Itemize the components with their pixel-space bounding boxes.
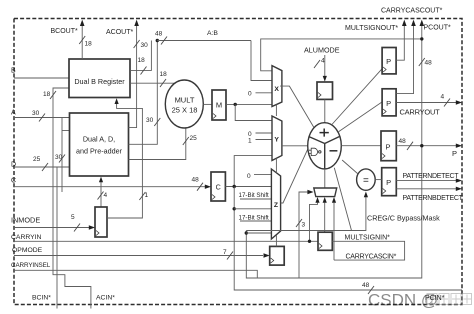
wire P2 to CARRYCASCOUT	[396, 25, 413, 94]
svg-text:3: 3	[302, 222, 306, 229]
arrowhead BCOUT crossing border	[80, 20, 85, 26]
svg-text:OPMODE: OPMODE	[12, 247, 43, 254]
arrowhead carry candidate 3	[332, 197, 336, 203]
svg-text:17-Bit Shift: 17-Bit Shift	[239, 192, 270, 199]
wire INMODE register to pre-adder	[100, 182, 102, 208]
svg-text:and Pre-adder: and Pre-adder	[76, 147, 123, 156]
svg-text:48: 48	[192, 176, 200, 183]
svg-text:C: C	[11, 178, 16, 185]
svg-text:25: 25	[190, 135, 198, 142]
value 4 on INMODE-to-preadder	[98, 192, 108, 200]
wire C into Y mux	[234, 156, 272, 187]
wire P3 output to border	[396, 145, 456, 147]
svg-text:X: X	[274, 86, 279, 93]
svg-text:CARRYINSEL: CARRYINSEL	[11, 262, 51, 269]
mux carry-in select trapezoid	[314, 188, 337, 197]
op-amp ALU add/sub/logic unit	[308, 123, 342, 169]
value 4 on ALUMODE	[314, 57, 325, 68]
svg-text:Dual B Register: Dual B Register	[74, 77, 125, 86]
svg-text:4: 4	[321, 57, 325, 64]
svg-text:M: M	[216, 100, 222, 109]
value 48 on C input	[192, 176, 204, 190]
wire INMODE input	[14, 227, 89, 229]
register P3	[381, 131, 396, 161]
node M output junction	[234, 103, 237, 106]
svg-text:0: 0	[247, 173, 251, 180]
svg-text:PCOUT*: PCOUT*	[424, 24, 452, 31]
svg-text:PATTERNDETECT: PATTERNDETECT	[403, 173, 460, 180]
svg-text:ALUMODE: ALUMODE	[304, 46, 340, 55]
svg-text:MULT: MULT	[175, 96, 195, 105]
value 48 on PCOUT	[419, 58, 432, 66]
wire comparator to P register 4	[375, 179, 382, 181]
svg-text:4: 4	[441, 93, 445, 100]
svg-text:INMODE: INMODE	[11, 216, 40, 225]
svg-text:CARRYCASCOUT*: CARRYCASCOUT*	[381, 7, 443, 14]
svg-text:CARRYCASCIN*: CARRYCASCIN*	[346, 253, 397, 260]
value 18 on BCOUT	[79, 36, 92, 47]
wire D input	[14, 166, 70, 168]
svg-text:1: 1	[248, 138, 252, 145]
wire PATTERNBDETECT to border	[396, 188, 456, 190]
svg-text:0: 0	[248, 91, 252, 98]
wire CARRYCASCIN to carry mux	[333, 203, 335, 261]
wire pre-adder output to multiplier	[129, 128, 186, 160]
wire mux select X to Y	[275, 105, 277, 117]
arrowhead INMODE into register	[89, 225, 95, 229]
svg-text:P: P	[386, 99, 391, 108]
svg-text:Z: Z	[274, 202, 278, 209]
register ALUMODE	[317, 82, 333, 99]
register P2	[382, 89, 396, 116]
wire ALUMODE into register	[324, 55, 326, 76]
svg-text:=: =	[363, 175, 369, 186]
svg-text:MULTSIGNOUT*: MULTSIGNOUT*	[345, 25, 398, 32]
wire 17-bit shifted input upper into Z mux	[240, 198, 271, 200]
node P feedback junction at Z	[245, 231, 248, 234]
svg-text:7: 7	[223, 249, 227, 256]
value 30 on A input	[32, 110, 45, 122]
svg-text:48: 48	[425, 59, 433, 66]
value 3 on CARRYINSEL riser	[296, 219, 306, 229]
wire P feedback into Z mux	[246, 232, 271, 234]
svg-text:P: P	[386, 178, 391, 187]
svg-text:18: 18	[85, 40, 93, 47]
wire CARRYIN branch to carry mux	[310, 203, 318, 242]
wire BCIN vertical	[56, 167, 58, 309]
svg-text:BCIN*: BCIN*	[32, 295, 51, 302]
node CARRYIN junction	[308, 240, 311, 243]
svg-text:A: A	[11, 110, 16, 117]
wire P feedback to X mux	[261, 39, 422, 71]
svg-text:ACIN*: ACIN*	[96, 295, 115, 302]
arrowhead carry candidate 1	[315, 197, 319, 203]
wire 17-bit shifted input lower into Z mux	[240, 220, 271, 222]
wire PCOUT riser	[421, 25, 423, 146]
svg-text:25: 25	[33, 156, 41, 163]
register INMODE	[95, 207, 107, 237]
register carry-in	[318, 232, 332, 250]
svg-text:ACOUT*: ACOUT*	[106, 29, 134, 36]
svg-text:30: 30	[32, 110, 40, 117]
wire M output to X mux	[226, 103, 272, 105]
wire B input	[14, 77, 69, 79]
wire ALU to pattern comparator	[342, 160, 357, 174]
wire CREG bypass into comparator	[246, 197, 366, 231]
svg-text:CARRYIN: CARRYIN	[11, 234, 42, 241]
value 4 on CARRYOUT	[441, 93, 451, 106]
wire Z mux output to ALU	[281, 149, 308, 203]
svg-text:48: 48	[155, 30, 163, 37]
wire X mux output to ALU	[280, 86, 314, 128]
mux Z	[271, 169, 280, 239]
svg-text:P: P	[386, 57, 391, 66]
wire A to Dual B Register branch	[53, 88, 69, 118]
wire mux select Y to Z	[275, 158, 277, 173]
wire ACIN path	[53, 118, 91, 309]
svg-text:PCIN*: PCIN*	[425, 295, 445, 302]
wire A input	[14, 117, 70, 119]
wire 0 into Y mux	[256, 132, 273, 134]
svg-text:18: 18	[43, 91, 51, 98]
wire MULT to M register	[203, 103, 212, 105]
value 25 on AD-to-MULT	[183, 135, 197, 145]
arrowhead carry candidate 2	[323, 197, 327, 203]
wire ALU diagonal to multsign logic	[334, 168, 351, 231]
svg-text:4: 4	[104, 192, 108, 199]
arrowhead ACOUT crossing border	[134, 20, 139, 26]
wire shifted PCIN into Z mux	[234, 208, 271, 210]
wire C input	[14, 186, 205, 188]
wire B register output to A:B	[130, 41, 151, 71]
wire PATTERNDETECT to border	[396, 180, 456, 182]
svg-text:PATTERNBDETECT: PATTERNBDETECT	[403, 195, 464, 202]
register P1	[382, 48, 396, 74]
wire P feedback bottom loop	[246, 146, 421, 278]
wire ALU output to P register 1	[332, 69, 382, 125]
register OPMODE	[270, 246, 285, 265]
svg-text:C: C	[216, 182, 221, 191]
register Dual A, D, and Pre-adder	[70, 113, 129, 176]
wire Y mux output to ALU	[282, 145, 308, 147]
value 18 on B-to-MULT	[160, 71, 168, 87]
wire ACOUT riser	[129, 25, 137, 128]
wire ALUMODE register to ALU	[324, 99, 326, 122]
comparator pattern detect equals	[357, 169, 376, 190]
value 30 on A lower branch	[55, 154, 65, 163]
svg-text:25 X 18: 25 X 18	[172, 106, 198, 115]
node P output junction	[420, 144, 423, 147]
register M	[212, 90, 226, 120]
multiplier MULT 25x18	[165, 80, 203, 128]
svg-text:Y: Y	[274, 137, 279, 144]
value 30 on ACOUT	[134, 40, 149, 49]
wire A lower branch into pre-adder	[61, 118, 63, 193]
svg-text:CREG/C Bypass/Mask: CREG/C Bypass/Mask	[367, 213, 440, 222]
wire A:B bus	[157, 40, 251, 42]
wire INMODE register to B register	[107, 104, 142, 219]
value 1 on INMODE-to-Breg	[139, 192, 148, 200]
svg-text:B: B	[11, 68, 16, 75]
register Dual B Register	[69, 59, 130, 98]
wire B register output to multiplier	[130, 82, 175, 84]
node C junction upper	[233, 185, 236, 188]
wire ALU carry stem to carry mux	[324, 169, 326, 188]
wire BCOUT riser	[81, 25, 83, 59]
wire A:B into X mux	[251, 41, 272, 81]
wire 0 into X mux	[256, 92, 273, 94]
svg-text:18: 18	[160, 71, 168, 78]
arrowhead CARRYINSEL into carry mux	[307, 190, 313, 194]
svg-text:30: 30	[141, 42, 149, 49]
wire PCIN riser	[234, 187, 462, 291]
node A:B junction	[156, 39, 159, 42]
svg-text:MULTSIGNIN*: MULTSIGNIN*	[345, 234, 391, 241]
value 25 on D input	[33, 156, 48, 171]
watermark CSDN	[368, 291, 472, 310]
wire P1 to MULTSIGNOUT	[396, 25, 404, 60]
mux Y	[272, 116, 282, 161]
value 18 on B-to-A:B	[138, 57, 147, 75]
svg-text:P: P	[452, 149, 457, 158]
node P feedback top junction	[420, 37, 423, 40]
svg-text:18: 18	[138, 57, 146, 64]
register C	[211, 172, 225, 201]
wire OPMODE input	[14, 255, 263, 257]
svg-text:CARRYOUT: CARRYOUT	[400, 107, 441, 116]
value 18 on A-to-B branch	[43, 91, 56, 99]
svg-text:5: 5	[71, 214, 75, 221]
svg-text:Dual A, D,: Dual A, D,	[83, 135, 115, 144]
value 30 on A-to-A:B	[146, 117, 160, 126]
svg-text:30: 30	[146, 117, 154, 124]
wire M output to Y mux	[235, 104, 272, 120]
value 7 on OPMODE	[223, 249, 233, 260]
wire MULTSIGNIN loop	[332, 241, 404, 260]
arrowhead OPMODE into register	[264, 253, 270, 257]
wire A register output to A:B	[129, 41, 158, 145]
wire ALU output to P register 3	[341, 145, 381, 147]
arrowhead C into register	[205, 185, 211, 189]
svg-text:48: 48	[362, 282, 370, 289]
wire 1 into Y mux	[256, 139, 273, 141]
wire CARRYIN input	[14, 240, 318, 242]
svg-text:BCOUT*: BCOUT*	[51, 28, 79, 35]
value 48 on P output	[399, 138, 414, 150]
wire P2 to CARRYOUT border	[396, 102, 456, 104]
register P4	[382, 168, 397, 196]
wire CARRYINSEL input and riser to carry mux	[14, 192, 308, 278]
svg-text:17-Bit Shift: 17-Bit Shift	[239, 214, 270, 221]
wire 0 into Z mux	[254, 173, 271, 175]
node PCIN junction	[233, 207, 236, 210]
wire mux select Z to OPMODE register	[275, 236, 277, 247]
wire C register output to Z mux	[225, 186, 271, 188]
svg-text:P: P	[385, 142, 390, 151]
value 48 on PCIN	[362, 282, 374, 294]
wire registered carry to carry mux	[324, 203, 326, 233]
wire ALU output to P register 2	[339, 102, 382, 132]
mux X	[272, 66, 282, 107]
value 48 on A:B	[155, 30, 167, 44]
value 5 on INMODE	[71, 214, 80, 232]
svg-text:48: 48	[399, 138, 407, 145]
svg-text:A:B: A:B	[207, 30, 218, 37]
